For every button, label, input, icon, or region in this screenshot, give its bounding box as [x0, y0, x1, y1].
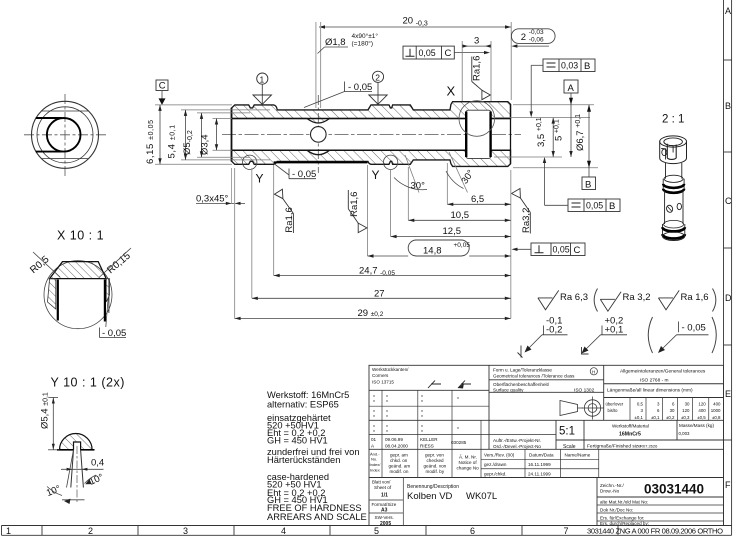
- svg-text:+0,05: +0,05: [454, 242, 471, 249]
- svg-text:bis/to: bis/to: [608, 408, 619, 413]
- svg-text:X: X: [447, 84, 456, 99]
- svg-text:1000: 1000: [711, 408, 721, 413]
- svg-text:10,5: 10,5: [451, 210, 470, 221]
- svg-text:±0,1: ±0,1: [634, 415, 643, 420]
- svg-text:gepr. von: gepr. von: [425, 453, 444, 458]
- svg-text:Werkstoff/Material: Werkstoff/Material: [612, 424, 649, 429]
- left hatch sliver: [48, 279, 56, 309]
- svg-text:2: 2: [521, 32, 526, 43]
- wire vertical center line of cross hole: [317, 95, 319, 173]
- svg-text:F: F: [725, 480, 731, 490]
- svg-text:geänd. von: geänd. von: [424, 464, 447, 469]
- svg-text:16MnCr5: 16MnCr5: [619, 432, 641, 438]
- body: [665, 191, 683, 224]
- fcf parallel 0,05 B: [568, 199, 620, 212]
- svg-text:-0,2: -0,2: [546, 325, 562, 336]
- svg-text:A3: A3: [381, 508, 388, 514]
- svg-text:ISO 2768 - m: ISO 2768 - m: [640, 378, 669, 384]
- svg-text:Y 10 : 1 (2x): Y 10 : 1 (2x): [51, 376, 125, 390]
- svg-text:Zeichn.-Nr./: Zeichn.-Nr./: [600, 483, 624, 488]
- hole dia extension lines: [315, 22, 317, 108]
- MATERIAL NOTE TEXT: [267, 390, 367, 522]
- oval dim 2 -0,03/-0,06: [511, 29, 555, 44]
- svg-text:400: 400: [713, 402, 721, 407]
- svg-text:4: 4: [281, 526, 286, 536]
- svg-text:-0,03: -0,03: [529, 29, 544, 36]
- svg-text:Auftr.-/Entw.-Projekt-Nr.: Auftr.-/Entw.-Projekt-Nr.: [493, 438, 541, 443]
- dome base bold: [57, 449, 74, 451]
- groove slot in flange (white over hatch): [466, 110, 491, 158]
- svg-text:Benennung/Description: Benennung/Description: [407, 484, 459, 490]
- svg-text:+0,1: +0,1: [605, 325, 624, 336]
- stem lines: [71, 450, 74, 488]
- svg-text:Längenmaße/all linear dimensio: Längenmaße/all linear dimensions (mm): [607, 388, 693, 394]
- dim 6,15: [145, 119, 156, 164]
- svg-text:Fertigmaße/Finished size: Fertigmaße/Finished size: [587, 444, 641, 450]
- svg-text:Vers./Rev. (00): Vers./Rev. (00): [484, 453, 515, 458]
- svg-text:Form u. Lage/Toleranzklasse: Form u. Lage/Toleranzklasse: [493, 368, 552, 373]
- svg-text:0,05: 0,05: [553, 245, 570, 255]
- svg-text:- 0,05: - 0,05: [682, 323, 706, 334]
- svg-text:120: 120: [682, 408, 690, 413]
- groove right bold wall: [104, 280, 106, 322]
- svg-text:±0,1: ±0,1: [651, 415, 660, 420]
- svg-text:über/over: über/over: [606, 402, 624, 407]
- svg-text:±0,5: ±0,5: [697, 415, 706, 420]
- paren ( big: [648, 317, 652, 353]
- cross hole circle: [311, 127, 327, 143]
- svg-text:D: D: [725, 293, 732, 303]
- datum B box: [582, 177, 596, 190]
- paren ) big: [712, 317, 716, 353]
- svg-text:Ers. für/Exchange for:: Ers. für/Exchange for:: [600, 516, 644, 521]
- 10deg right label: [88, 472, 106, 488]
- stem center line: [76, 446, 78, 504]
- outer circle: [32, 101, 99, 168]
- svg-text:16.11.1999: 16.11.1999: [528, 462, 551, 467]
- svg-text:No.: No.: [371, 457, 377, 462]
- cone + projection symbol: [560, 401, 583, 416]
- chamfer circle: [37, 107, 93, 163]
- svg-text:Ra 6,3: Ra 6,3: [560, 292, 588, 303]
- svg-text:ISO 13715: ISO 13715: [372, 380, 394, 385]
- Ra 1,6 symbol: [658, 290, 679, 309]
- straightness tol at X detail: [102, 328, 126, 339]
- DETAIL X 10:1: [28, 229, 133, 340]
- svg-text:30: 30: [685, 402, 690, 407]
- dim 5,4: [167, 124, 178, 158]
- svg-text:Index: Index: [370, 468, 380, 473]
- svg-text:Kolben VD: Kolben VD: [407, 491, 453, 502]
- svg-text:27: 27: [374, 289, 385, 300]
- head cutaway notch: [667, 144, 676, 160]
- svg-text:2: 2: [88, 526, 93, 536]
- datum A box: [564, 80, 578, 93]
- 10deg left label: [45, 483, 63, 499]
- ISO VIEW 2:1: [660, 114, 687, 241]
- Ra1,6 flag top right: [472, 56, 483, 81]
- RIGHT DIMENSIONS: [494, 59, 620, 256]
- bottom hatched wall band: [232, 150, 511, 166]
- svg-text:WK07L: WK07L: [466, 491, 497, 502]
- svg-text:2005: 2005: [380, 521, 391, 527]
- svg-text:12,5: 12,5: [443, 226, 462, 237]
- svg-text:C: C: [574, 245, 581, 256]
- svg-text:modif. by: modif. by: [426, 469, 445, 474]
- svg-text:R07.2626: R07.2626: [640, 444, 658, 449]
- LEFT DIMENSIONS: [145, 80, 270, 205]
- svg-text:Oberflächenbeschaffenheit/: Oberflächenbeschaffenheit/: [493, 382, 550, 387]
- label R0,15 rotated: [105, 250, 133, 276]
- svg-text:01: 01: [371, 437, 377, 442]
- svg-text:A: A: [725, 6, 731, 16]
- flat chords: [42, 110, 89, 112]
- svg-text:400: 400: [698, 408, 706, 413]
- svg-text:Masse/Mass (kg): Masse/Mass (kg): [679, 423, 714, 428]
- bore bottom line: [232, 149, 511, 151]
- svg-text:Werkstoff: 16MnCr5: Werkstoff: 16MnCr5: [267, 390, 349, 400]
- svg-text:-0,06: -0,06: [529, 37, 544, 44]
- Ra3,2 flag right: [521, 208, 532, 233]
- ring section with dark bands: [663, 179, 684, 191]
- body holes: [666, 204, 674, 213]
- svg-text:0,03: 0,03: [561, 61, 578, 71]
- dim dia6,7 +0,1: [588, 105, 590, 177]
- svg-text:Drow.-No: Drow.-No: [600, 489, 620, 494]
- ext lines right: [494, 117, 590, 119]
- SURFACE FINISH LEGEND: [518, 289, 717, 358]
- bottom section: [663, 224, 685, 237]
- svg-text:08.04.2000: 08.04.2000: [385, 444, 408, 449]
- svg-text:Scale: Scale: [563, 444, 576, 450]
- svg-text:E: E: [725, 389, 731, 399]
- detail circle X on flange groove: [459, 101, 495, 137]
- svg-text:Corners: Corners: [372, 373, 389, 378]
- svg-text:Format/Size: Format/Size: [372, 502, 397, 507]
- dim 5 +0,1: [570, 93, 572, 157]
- svg-text:09.06.99: 09.06.99: [385, 437, 403, 442]
- detail boundary circle: [44, 261, 112, 329]
- detail circle Y right: [383, 155, 397, 169]
- groove right thin line: [108, 280, 110, 314]
- TITLE BLOCK grid: [369, 365, 724, 525]
- svg-text:chkd. on: chkd. on: [390, 458, 408, 463]
- bottom dim line: [62, 499, 85, 501]
- svg-text:alternativ: ESP65: alternativ: ESP65: [267, 400, 339, 410]
- svg-text:120: 120: [698, 402, 706, 407]
- svg-text:0,05: 0,05: [419, 48, 436, 58]
- detail circle Y left: [243, 155, 257, 169]
- neck: [666, 163, 682, 179]
- head cylinder: [660, 142, 687, 164]
- svg-text:Werkstückkanten/: Werkstückkanten/: [372, 367, 409, 372]
- svg-text:alte Mat.Nr./old Mat No:: alte Mat.Nr./old Mat No:: [600, 500, 648, 505]
- dim dia5 -0,2: [182, 130, 194, 155]
- wire center cross: [24, 134, 106, 136]
- svg-text:0,003: 0,003: [679, 431, 691, 436]
- ext verticals: [234, 168, 236, 319]
- right end face: [510, 104, 512, 164]
- svg-text:Ra1,6: Ra1,6: [349, 192, 360, 217]
- svg-text:±0,3: ±0,3: [681, 415, 690, 420]
- svg-text:±0,2: ±0,2: [666, 415, 675, 420]
- svg-text:C: C: [445, 48, 452, 59]
- fcf perpendicular 0,05 C right: [531, 243, 585, 256]
- svg-text:Name/Name: Name/Name: [565, 453, 591, 458]
- datum C box: [156, 80, 168, 91]
- BOTTOM CHAIN DIMENSIONS: [235, 152, 511, 320]
- TOP DIMENSIONS: [253, 16, 555, 109]
- svg-text:Ø3,4: Ø3,4: [200, 134, 211, 155]
- svg-text:6,5: 6,5: [471, 194, 484, 205]
- svg-text:2 : 1: 2 : 1: [662, 114, 684, 126]
- svg-text:30: 30: [670, 408, 675, 413]
- END VIEW circle left: [24, 94, 106, 176]
- svg-text:H: H: [592, 369, 595, 374]
- svg-text:0,05: 0,05: [586, 201, 603, 211]
- svg-text:5:1: 5:1: [559, 426, 575, 438]
- svg-text:14,8: 14,8: [423, 246, 442, 257]
- fcf parallel 0,03 B: [543, 59, 595, 72]
- edge symbols: [428, 381, 441, 389]
- svg-text:Notice of: Notice of: [459, 460, 478, 465]
- top hatched wall band: [232, 102, 511, 123]
- svg-text:Geometrical tolerances /Toler: Geometrical tolerances /Tolerance class: [493, 374, 575, 379]
- svg-text:modif. on: modif. on: [390, 469, 409, 474]
- svg-text:gepr. am: gepr. am: [390, 453, 408, 458]
- TITLE BLOCK texts: [370, 367, 722, 527]
- fcf perpendicular 0,05 C top: [403, 46, 454, 59]
- svg-text:3: 3: [474, 36, 479, 47]
- paren ): [713, 289, 716, 312]
- svg-text:Ers. durch/Replaced by:: Ers. durch/Replaced by:: [600, 521, 649, 526]
- svg-text:KELLER: KELLER: [420, 437, 438, 442]
- paren (: [594, 289, 597, 312]
- Ra1,6 flag bottom mid: [349, 192, 360, 217]
- label R0,5 rotated: [28, 254, 52, 276]
- svg-text:C: C: [159, 81, 166, 92]
- svg-text:Dok Nr./Doc No:: Dok Nr./Doc No:: [600, 508, 633, 513]
- svg-text:Ra 3,2: Ra 3,2: [623, 292, 651, 303]
- svg-text:Ra1,6: Ra1,6: [472, 56, 483, 81]
- svg-text:Index/: Index/: [370, 462, 382, 467]
- svg-text:GH = 450 HV1: GH = 450 HV1: [267, 435, 328, 445]
- svg-text:Ord.-/Devel.-Project-No: Ord.-/Devel.-Project-No: [493, 444, 541, 449]
- ext lines left: [155, 104, 232, 106]
- svg-text:change No: change No: [457, 466, 480, 471]
- svg-text:RIESS: RIESS: [420, 444, 434, 449]
- hatched rim trapezoid: [50, 262, 107, 279]
- svg-text:B: B: [609, 201, 615, 212]
- Ra 6,3 symbol: [538, 290, 559, 309]
- dim 14,8 +0,05 oval: [408, 240, 469, 256]
- svg-text:2: 2: [375, 73, 380, 83]
- svg-text:A: A: [568, 83, 575, 94]
- dome hatched: [60, 434, 93, 450]
- svg-text:ISO 1302: ISO 1302: [574, 388, 595, 394]
- svg-text:4x90°±1°: 4x90°±1°: [352, 32, 379, 40]
- svg-text:gepr./chkd.: gepr./chkd.: [484, 471, 506, 476]
- svg-text:geänd. am: geänd. am: [389, 464, 411, 469]
- MAIN SECTION VIEW of piston shaft: [222, 84, 521, 186]
- svg-text:03031440: 03031440: [644, 482, 704, 497]
- leader R0,15: [99, 248, 131, 278]
- svg-text:Surface quality: Surface quality: [493, 388, 524, 393]
- left end face: [231, 108, 233, 162]
- svg-text:3: 3: [183, 526, 188, 536]
- svg-text:SW-Vers.: SW-Vers.: [375, 515, 394, 520]
- svg-text:1/1: 1/1: [381, 493, 388, 499]
- svg-text:1: 1: [6, 526, 11, 536]
- svg-text:7: 7: [564, 526, 569, 536]
- svg-text:Ø1,8: Ø1,8: [325, 37, 346, 48]
- flag 2: [372, 71, 383, 82]
- flag 1: [257, 73, 268, 84]
- svg-text:±0,8: ±0,8: [712, 415, 721, 420]
- svg-text:Sheet of: Sheet of: [374, 485, 392, 490]
- svg-text:1: 1: [260, 74, 265, 84]
- 30deg cone ext diagonals and arcs: [405, 155, 419, 193]
- svg-text:B: B: [584, 61, 590, 72]
- svg-text:0,4: 0,4: [91, 458, 104, 469]
- svg-text:Ra 1,6: Ra 1,6: [681, 292, 709, 303]
- svg-text:5: 5: [374, 526, 379, 536]
- svg-text:0,5: 0,5: [637, 402, 644, 407]
- groove left bold wall: [57, 280, 59, 321]
- wire center line horizontal: [222, 133, 521, 135]
- svg-text:ARREARS AND SCALE: ARREARS AND SCALE: [267, 512, 367, 522]
- svg-text:30°: 30°: [411, 181, 426, 192]
- svg-text:Ä. M. Nr.: Ä. M. Nr.: [459, 454, 477, 460]
- DETAIL Y 10:1 (2x): [40, 376, 125, 505]
- svg-text:Blatt von/: Blatt von/: [372, 480, 391, 485]
- svg-text:checked: checked: [427, 458, 445, 463]
- svg-text:B: B: [725, 101, 731, 111]
- dim 3,5 +0,1: [552, 118, 554, 157]
- bore top line: [232, 118, 511, 120]
- svg-text:C: C: [725, 196, 732, 206]
- revision dots: [373, 395, 458, 431]
- right hatch sliver: [106, 279, 109, 302]
- dim dia3,4: [200, 134, 211, 155]
- svg-text:030285: 030285: [451, 440, 467, 445]
- svg-text:0,3x45°: 0,3x45°: [196, 194, 229, 205]
- svg-text:X 10 : 1: X 10 : 1: [57, 229, 104, 243]
- svg-text:24.11.1999: 24.11.1999: [528, 471, 551, 476]
- svg-text:gez./drawn: gez./drawn: [484, 462, 507, 467]
- dia 5,4 dim rotated: [40, 392, 51, 429]
- svg-text:Härterückständen: Härterückständen: [267, 455, 340, 465]
- svg-text:Y: Y: [256, 172, 264, 186]
- Ra 3,2 symbol: [600, 292, 621, 311]
- bold slot floor line: [274, 161, 368, 163]
- bold slot keyhole: [47, 118, 81, 152]
- svg-text:B: B: [585, 179, 591, 190]
- svg-text:3031440 ZNG A 000 FR 08.09.200: 3031440 ZNG A 000 FR 08.09.2006 ORTHO: [587, 527, 723, 536]
- svg-text:Datum/Data: Datum/Data: [529, 453, 554, 458]
- leader R0,5: [33, 252, 60, 277]
- svg-text:(=180°): (=180°): [352, 40, 374, 48]
- svg-text:Allgemeintoleranzen/General to: Allgemeintoleranzen/General tolerances: [620, 369, 706, 375]
- Ra1,6 flag bottom left: [284, 207, 295, 232]
- svg-text:6: 6: [470, 526, 475, 536]
- svg-text:Y: Y: [372, 168, 380, 182]
